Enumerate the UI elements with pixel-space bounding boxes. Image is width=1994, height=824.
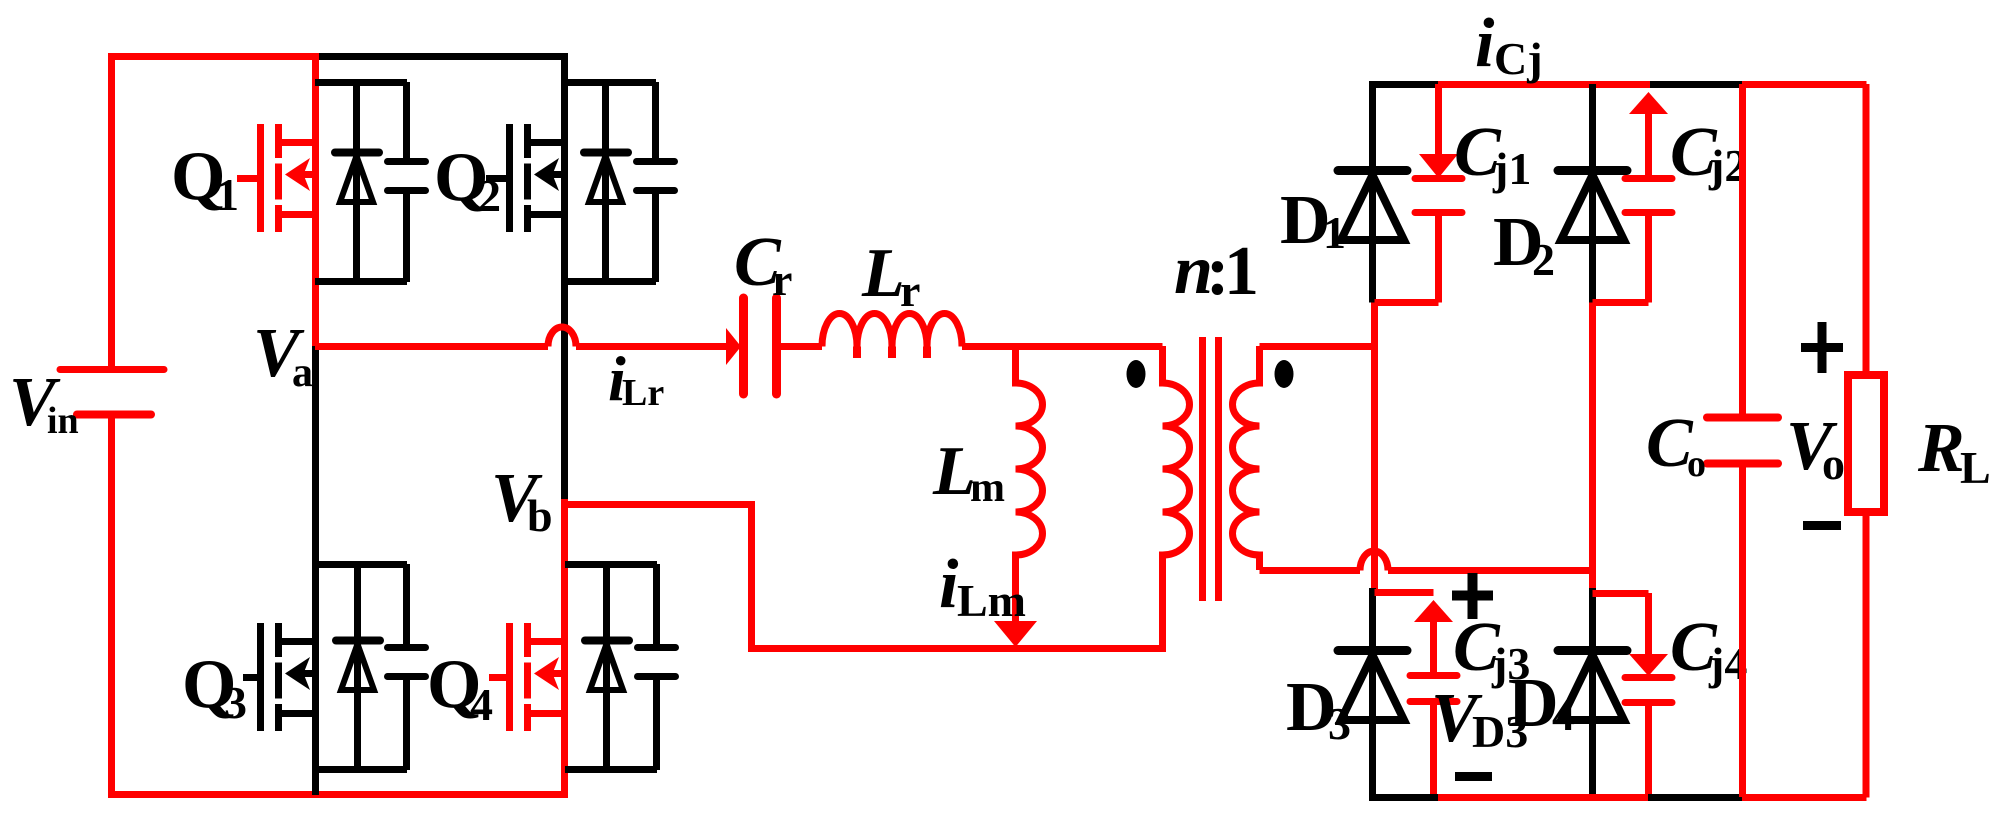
wire battery bottom + bottom-left rail red bbox=[112, 417, 569, 795]
label RL bbox=[1917, 410, 1991, 493]
transformer core bbox=[1203, 337, 1219, 601]
label Co bbox=[1646, 405, 1706, 485]
svg-text:o: o bbox=[1687, 443, 1706, 485]
wire Q4 branch top bbox=[565, 561, 657, 568]
label Lr bbox=[861, 235, 920, 316]
wire rectifier leg2 mid red bbox=[1589, 303, 1596, 593]
svg-text:3: 3 bbox=[1328, 698, 1351, 749]
diode D3 bbox=[1338, 588, 1407, 798]
label D4 bbox=[1508, 665, 1575, 742]
transistor Q1 (red MOSFET) bbox=[237, 124, 315, 232]
svg-text:i: i bbox=[1475, 5, 1495, 82]
inductor Lm with current arrow bbox=[994, 346, 1043, 647]
transistor Q2 (black MOSFET) bbox=[486, 124, 564, 232]
svg-text:D: D bbox=[1508, 665, 1559, 742]
wire top-left rail red bbox=[112, 57, 319, 370]
svg-text:1: 1 bbox=[1224, 233, 1259, 310]
wire top rail black bbox=[318, 53, 568, 60]
resistor RL bbox=[1848, 84, 1884, 798]
svg-text:2: 2 bbox=[478, 170, 501, 221]
wire Q2 branch bottom bbox=[565, 278, 657, 285]
label Vo bbox=[1786, 408, 1845, 489]
label Vo minus bbox=[1803, 521, 1841, 530]
svg-text:j1: j1 bbox=[1492, 143, 1531, 194]
svg-text:Cj: Cj bbox=[1494, 33, 1543, 84]
label Cj2 bbox=[1670, 114, 1747, 191]
transistor Q3 (black MOSFET) bbox=[243, 623, 315, 731]
label Cj4 bbox=[1670, 609, 1747, 689]
svg-text:r: r bbox=[772, 254, 792, 305]
wire top rail black segment Cj2 to Co bbox=[1650, 81, 1742, 88]
transformer primary winding bbox=[1163, 346, 1190, 648]
battery Vin short plate bbox=[77, 411, 151, 419]
label D3 bbox=[1286, 669, 1351, 749]
capacitor Cr with arrowhead bbox=[726, 298, 822, 394]
transformer secondary winding bbox=[1233, 346, 1260, 570]
label Cj3 bbox=[1453, 609, 1530, 689]
battery Vin long plate bbox=[60, 366, 164, 373]
wire top rail red segment Cj1 to Cj2 bbox=[1438, 81, 1650, 88]
label Cj1 bbox=[1454, 114, 1531, 194]
label Q3 bbox=[182, 646, 247, 728]
wire bottom rail black D3 to Cj3 bbox=[1369, 794, 1438, 801]
wire secondary bottom lead with crossover bump bbox=[1260, 551, 1593, 571]
wire secondary top lead bbox=[1260, 343, 1375, 350]
label Va bbox=[253, 315, 313, 396]
wire Q2 leg black bbox=[561, 53, 568, 501]
wire bottom rail red Co to RL bbox=[1742, 794, 1867, 801]
svg-text:R: R bbox=[1917, 410, 1965, 487]
wire rectifier leg1 mid red bbox=[1371, 303, 1378, 593]
svg-text:b: b bbox=[527, 490, 553, 541]
label iLm bbox=[939, 546, 1026, 626]
label iCj bbox=[1475, 5, 1543, 84]
svg-text:4: 4 bbox=[1552, 689, 1575, 740]
svg-text:2: 2 bbox=[1532, 234, 1555, 285]
label Lm bbox=[932, 433, 1005, 511]
wire Q3 branch bottom bbox=[315, 766, 407, 773]
node dot secondary polarity bbox=[1275, 360, 1294, 388]
wire bottom rail red Cj3 to Cj4 bbox=[1438, 794, 1648, 801]
svg-text:m: m bbox=[970, 465, 1005, 511]
diode Q2 body diode bbox=[584, 82, 628, 282]
wire Q3 branch top bbox=[315, 561, 407, 568]
wire Vb route to transformer bottom bbox=[565, 505, 1166, 649]
capacitor Cj3 with up arrow bbox=[1375, 593, 1458, 798]
svg-text:4: 4 bbox=[470, 679, 493, 730]
capacitor Q1 parallel cap bbox=[388, 82, 426, 282]
svg-text:Lr: Lr bbox=[622, 372, 664, 414]
svg-text:a: a bbox=[292, 350, 313, 396]
label VD3 bbox=[1431, 680, 1528, 757]
capacitor Q2 parallel cap bbox=[637, 82, 675, 282]
label Vin bbox=[9, 364, 79, 442]
diode Q1 body diode bbox=[335, 82, 379, 282]
label VD3 minus bbox=[1455, 772, 1492, 781]
wire Q3 leg black bbox=[312, 346, 319, 795]
transistor Q4 (red MOSFET) bbox=[489, 623, 565, 731]
label D1 bbox=[1280, 182, 1346, 259]
label iLr bbox=[608, 343, 664, 414]
label Q2 bbox=[434, 139, 501, 221]
svg-text:3: 3 bbox=[224, 677, 247, 728]
label VD3 plus bbox=[1452, 573, 1493, 619]
svg-text:1: 1 bbox=[1323, 207, 1346, 258]
wire bottom rail black Cj4 to Co bbox=[1648, 794, 1742, 801]
label Q4 bbox=[427, 646, 493, 730]
diode Q3 body diode bbox=[336, 564, 380, 770]
label n:1 bbox=[1174, 232, 1259, 310]
svg-text:in: in bbox=[47, 400, 79, 442]
label Vo plus bbox=[1801, 322, 1843, 373]
wire Q4 leg red bbox=[561, 499, 568, 795]
wire Q1 leg red bbox=[312, 53, 319, 346]
label Cr bbox=[734, 224, 792, 305]
diode D2 bbox=[1558, 84, 1627, 303]
wire Q4 branch bottom bbox=[565, 766, 657, 773]
svg-text:L: L bbox=[1960, 442, 1991, 493]
svg-text:r: r bbox=[900, 265, 920, 316]
wire Q2 branch top bbox=[565, 79, 657, 86]
capacitor Cj1 with down arrow bbox=[1375, 84, 1463, 303]
capacitor Cj2 with up arrow bbox=[1593, 92, 1673, 303]
svg-text:o: o bbox=[1822, 438, 1845, 489]
capacitor Q4 parallel cap bbox=[638, 564, 676, 770]
wire Q1 branch bottom bbox=[315, 278, 407, 285]
diode D4 bbox=[1558, 588, 1627, 798]
label Q1 bbox=[171, 138, 239, 220]
capacitor Cj4 with down arrow bbox=[1593, 593, 1673, 797]
svg-text:L: L bbox=[861, 235, 905, 312]
wire Q1 branch top bbox=[315, 79, 407, 86]
label Vb bbox=[491, 460, 553, 541]
svg-text:1: 1 bbox=[216, 169, 239, 220]
wire top rail red segment Co to RL bbox=[1742, 81, 1867, 88]
wire Va node to Cr with crossover bump bbox=[315, 327, 728, 346]
capacitor Co bbox=[1707, 84, 1778, 797]
svg-text:Lm: Lm bbox=[957, 575, 1026, 626]
diode D1 bbox=[1338, 84, 1407, 303]
label D2 bbox=[1493, 204, 1555, 285]
svg-text:i: i bbox=[939, 546, 959, 623]
inductor Lr bbox=[822, 314, 1163, 359]
capacitor Q3 parallel cap bbox=[388, 564, 426, 770]
wire top rail black segment D1 to Cj1 bbox=[1369, 81, 1438, 88]
diode Q4 body diode bbox=[585, 564, 629, 770]
node dot primary polarity bbox=[1127, 360, 1146, 388]
